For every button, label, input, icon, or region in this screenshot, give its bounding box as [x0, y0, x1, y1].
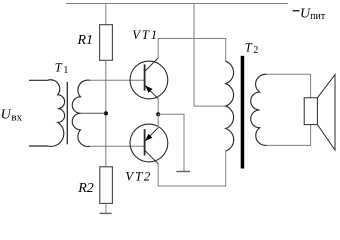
svg-text:R1: R1	[77, 33, 94, 48]
node: bias / center-tap junction dot	[104, 111, 108, 115]
wire: R2 bottom lead	[105, 203, 107, 213]
transformer T2 secondary winding	[251, 74, 267, 145]
svg-text:VT1: VT1	[132, 28, 159, 42]
wire: emitters to ground	[158, 114, 184, 171]
ground (common emitters)	[176, 171, 190, 173]
resistor R2	[100, 167, 113, 204]
svg-text:T1: T1	[55, 60, 69, 76]
transistor VT1	[130, 58, 168, 99]
speaker horn	[317, 75, 335, 150]
resistor R1	[100, 25, 113, 61]
wire: VT1 collector up and over to T2 primary top	[158, 39, 226, 62]
ground under R2	[100, 212, 112, 214]
svg-text:VT2: VT2	[125, 170, 152, 184]
transformer T2 primary winding	[226, 61, 234, 151]
wire: VT2 emitter up to common node	[157, 114, 159, 127]
wire: top supply rail	[66, 3, 288, 5]
transformer T1 core	[66, 82, 68, 144]
arrow: VT1 emitter (PNP)	[145, 86, 152, 93]
wire: supply rail to T2 primary center tap	[194, 4, 226, 107]
svg-text:R2: R2	[77, 181, 94, 196]
wire: T1 secondary top to VT1 base	[90, 79, 145, 81]
transformer T1 secondary winding	[72, 80, 90, 146]
transformer T1 primary winding	[29, 80, 65, 147]
wire: T1 secondary bottom to VT2 base	[90, 145, 145, 147]
transistor VT2	[130, 124, 168, 164]
wire: R1 top lead	[105, 4, 107, 25]
wire: T2 secondary top to speaker	[267, 74, 311, 98]
wire: VT1 emitter down to common node	[157, 99, 159, 115]
node: common emitter junction dot	[156, 112, 160, 116]
wire: T1 secondary center tap to bias junction	[81, 112, 106, 114]
svg-text:Uвх: Uвх	[1, 107, 23, 123]
svg-text:T2: T2	[245, 40, 259, 56]
wire: T2 secondary bottom to speaker	[267, 125, 311, 146]
arrow: VT2 emitter (PNP)	[145, 134, 152, 141]
wire: VT2 collector down and over to T2 primary bottom	[158, 151, 226, 186]
label -Uпит	[293, 10, 300, 12]
wire: bias line between R1 and R2	[105, 60, 107, 167]
svg-text:Uпит: Uпит	[300, 6, 326, 21]
speaker (loudspeaker box)	[304, 98, 317, 125]
transformer T2 core bar	[241, 56, 245, 169]
